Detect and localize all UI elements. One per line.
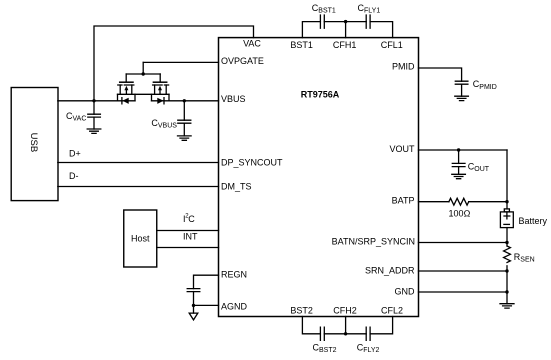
svg-text:VBUS: VBUS (158, 123, 177, 130)
svg-text:PMID: PMID (479, 84, 497, 91)
svg-text:DM_TS: DM_TS (221, 182, 252, 192)
svg-text:D+: D+ (69, 149, 81, 159)
svg-text:SRN_ADDR: SRN_ADDR (365, 266, 415, 276)
svg-text:D-: D- (69, 171, 79, 181)
svg-text:INT: INT (183, 232, 198, 242)
svg-text:VAC: VAC (73, 116, 87, 123)
svg-text:C: C (188, 214, 195, 224)
svg-text:BATP: BATP (392, 196, 415, 206)
svg-text:FLY1: FLY1 (364, 8, 380, 15)
svg-text:FLY2: FLY2 (363, 347, 379, 354)
svg-text:USB: USB (28, 133, 39, 153)
svg-text:Battery: Battery (519, 216, 548, 226)
svg-text:VAC: VAC (243, 39, 261, 49)
svg-text:VOUT: VOUT (389, 144, 415, 154)
svg-text:BST2: BST2 (290, 306, 313, 316)
svg-text:RT9756A: RT9756A (301, 89, 340, 99)
svg-text:VBUS: VBUS (221, 94, 246, 104)
svg-text:BST1: BST1 (290, 40, 313, 50)
svg-text:AGND: AGND (221, 301, 248, 311)
svg-text:BST2: BST2 (319, 347, 337, 354)
svg-text:BATN/SRP_SYNCIN: BATN/SRP_SYNCIN (332, 237, 415, 247)
svg-text:GND: GND (395, 287, 416, 297)
svg-text:CFL1: CFL1 (381, 40, 403, 50)
svg-text:SEN: SEN (520, 257, 534, 264)
svg-text:DP_SYNCOUT: DP_SYNCOUT (221, 158, 283, 168)
svg-text:Host: Host (131, 234, 150, 244)
svg-text:CFH1: CFH1 (333, 40, 357, 50)
svg-text:100Ω: 100Ω (449, 209, 471, 219)
svg-text:PMID: PMID (392, 62, 415, 72)
svg-text:BST1: BST1 (318, 8, 336, 15)
svg-text:REGN: REGN (221, 270, 247, 280)
svg-text:OUT: OUT (474, 166, 490, 173)
svg-text:CFL2: CFL2 (381, 306, 403, 316)
svg-text:OVPGATE: OVPGATE (221, 56, 264, 66)
svg-text:CFH2: CFH2 (333, 306, 357, 316)
